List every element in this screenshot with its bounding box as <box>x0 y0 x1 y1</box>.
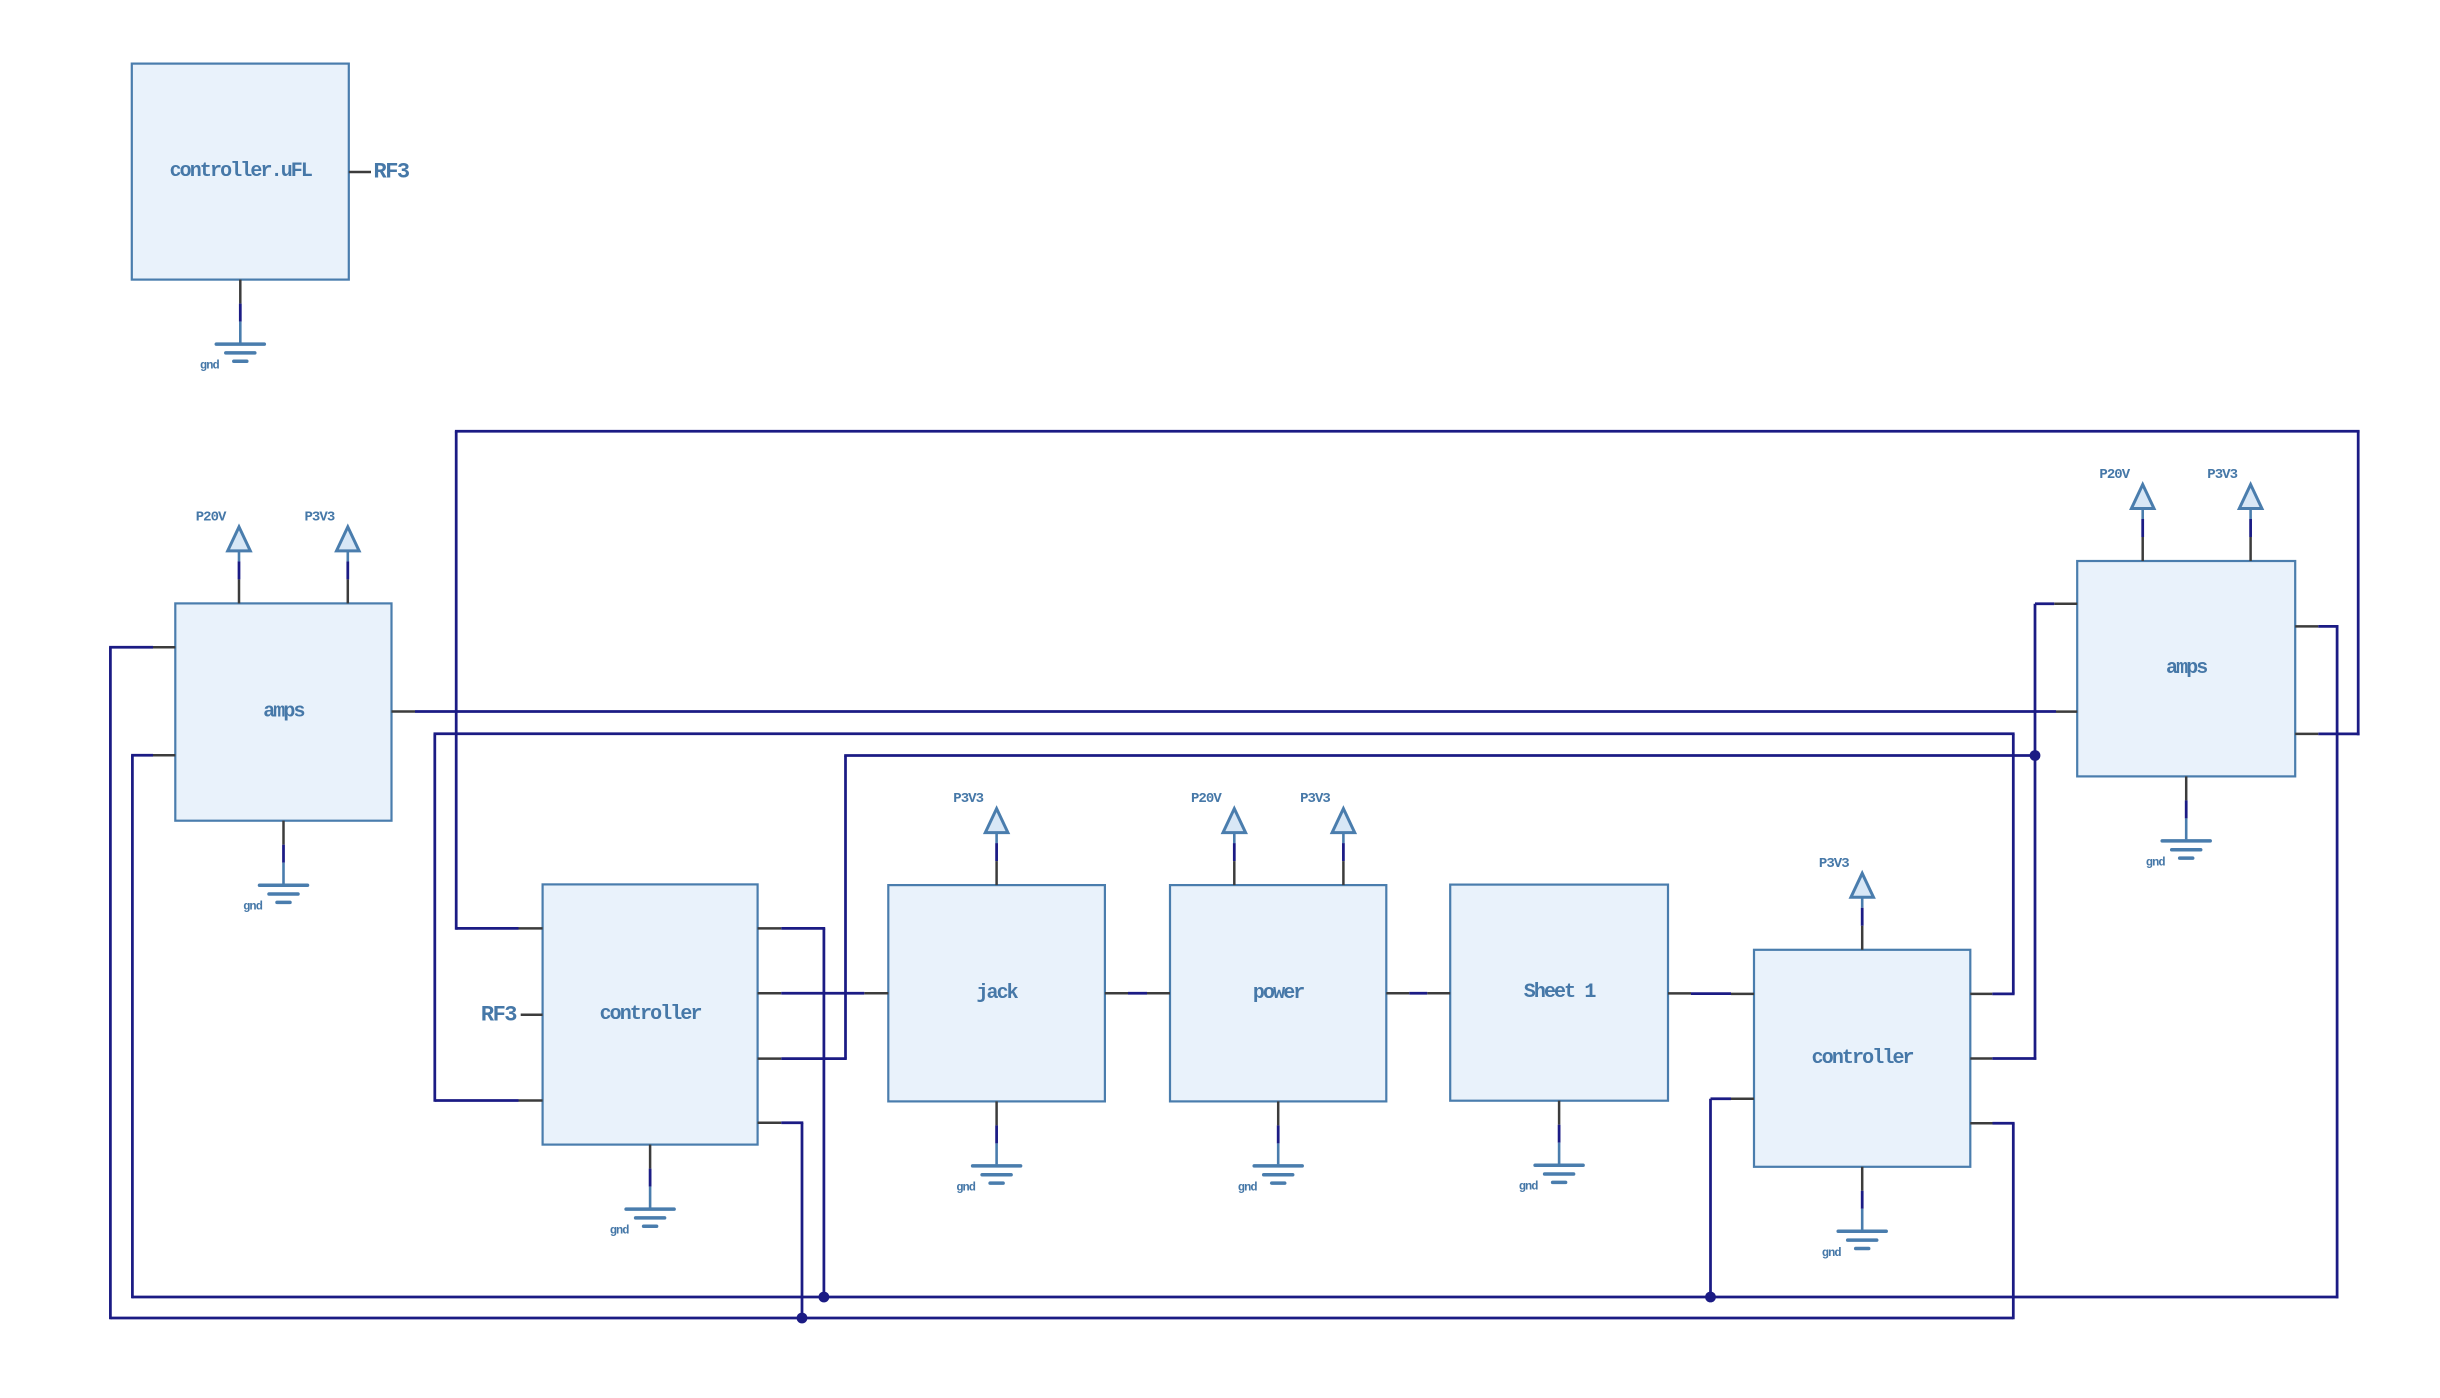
pin RF3 (controller.uFL) <box>349 171 371 174</box>
power symbol P3V3 (power) <box>1300 791 1355 843</box>
svg-text:RF3: RF3 <box>481 1002 517 1027</box>
svg-text:RF3: RF3 <box>374 160 410 185</box>
svg-text:P20V: P20V <box>1191 791 1222 807</box>
pin P3V3 (amps L) <box>347 579 350 603</box>
pin controller R left pin 2 <box>1731 1097 1754 1100</box>
ground (Sheet 1) <box>1519 1143 1583 1194</box>
pin controller C right pin 2 <box>758 992 782 995</box>
hierarchical sheet amps (right) <box>2077 561 2295 776</box>
wire amps L pin1 drop <box>109 647 112 1319</box>
wire L3 horizontal <box>435 1099 519 1102</box>
pin gnd (controller C) <box>649 1145 652 1169</box>
wire gnd stem (controller R) <box>1861 1191 1864 1209</box>
svg-text:gnd: gnd <box>956 1180 976 1194</box>
svg-text:P3V3: P3V3 <box>304 509 334 525</box>
wire top horizontal <box>455 430 2360 433</box>
power symbol P3V3 (jack) <box>953 791 1008 843</box>
wire bottom bus B <box>110 1317 2013 1320</box>
pin controller C right pin 1 <box>758 927 782 930</box>
junction bottom bus B / ctrl C R4 <box>797 1313 808 1324</box>
pin power right pin <box>1386 992 1409 995</box>
pin Sheet 1 left pin <box>1427 992 1450 995</box>
wire ctrl C R4 horizontal <box>781 1121 803 1124</box>
hierarchical sheet controller (center) <box>543 884 758 1144</box>
wire gnd stem (Sheet 1) <box>1558 1125 1561 1143</box>
svg-text:gnd: gnd <box>2146 855 2166 869</box>
wire to amps R pin D <box>2318 733 2359 736</box>
pin gnd (Sheet 1) <box>1558 1101 1561 1125</box>
svg-text:gnd: gnd <box>1519 1180 1539 1194</box>
wire amps L pin1 horizontal <box>109 646 153 649</box>
hierarchical sheet amps (left) <box>175 603 391 820</box>
power symbol P3V3 (controller R) <box>1819 856 1874 908</box>
pin controller C RF3 pin <box>521 1014 543 1017</box>
ground (controller C) <box>610 1187 674 1238</box>
wire L3 riser <box>433 734 436 1102</box>
wire R'1 horizontal <box>1992 993 2014 996</box>
wire Sheet 1 to controller R <box>1691 992 1731 995</box>
pin amps L right pin <box>392 710 416 713</box>
wire ctrl C R2 to jack <box>781 992 864 995</box>
pin P3V3 (controller R) <box>1861 926 1864 950</box>
wire P20V stem (power) <box>1233 843 1236 861</box>
wire gnd stem (power) <box>1277 1125 1280 1143</box>
wire ctrl R R'3 drop <box>2012 1123 2015 1319</box>
wire amps R pin A horizontal <box>2035 602 2054 605</box>
power symbol P20V (power) <box>1191 791 1246 843</box>
wire jack to power <box>1128 992 1147 995</box>
pin P20V (amps L) <box>238 579 241 603</box>
wire drop to R'1 <box>2012 734 2015 994</box>
svg-text:P20V: P20V <box>2099 467 2130 483</box>
wire amps-to-amps horizontal <box>415 710 2056 713</box>
wire gnd stem (amps R) <box>2185 800 2188 818</box>
pin power left pin <box>1147 992 1170 995</box>
pin controller R left pin 1 <box>1731 993 1754 996</box>
wire ctrl C R1 drop <box>823 928 826 1297</box>
hierarchical sheet controller (right) <box>1754 950 1970 1167</box>
pin P3V3 (jack) <box>995 861 998 885</box>
svg-text:controller.uFL: controller.uFL <box>170 160 312 183</box>
wire ctrl R R'3 horizontal <box>1993 1122 2015 1125</box>
ground (jack) <box>956 1143 1020 1194</box>
wire ctrl C R4 drop <box>801 1123 804 1318</box>
wire L1 horizontal <box>456 927 518 930</box>
svg-text:gnd: gnd <box>610 1224 630 1238</box>
svg-text:amps: amps <box>263 701 304 724</box>
hierarchical sheet jack <box>888 885 1105 1101</box>
svg-text:P3V3: P3V3 <box>953 791 983 807</box>
wire amps R pin C horizontal <box>2318 625 2338 628</box>
pin controller C left pin 1 <box>519 927 543 930</box>
svg-text:Sheet 1: Sheet 1 <box>1524 981 1597 1004</box>
wire gnd stem (controller.uFL) <box>239 304 242 322</box>
hierarchical sheet power <box>1170 885 1386 1101</box>
pin P20V (amps R) <box>2141 537 2144 561</box>
junction bottom bus A / ctrl R L'2 <box>1705 1292 1716 1303</box>
wire amps R pin A vertical <box>2034 604 2037 1060</box>
svg-text:P3V3: P3V3 <box>1300 791 1330 807</box>
pin Sheet 1 right pin <box>1668 992 1691 995</box>
wire L1 riser <box>455 431 458 929</box>
power symbol P3V3 (amps L) <box>304 509 359 561</box>
pin P3V3 (power) <box>1342 861 1345 885</box>
pin controller C left pin 3 <box>519 1099 543 1102</box>
ground (power) <box>1238 1143 1302 1194</box>
svg-text:amps: amps <box>2166 657 2207 680</box>
wire mid horizontal B <box>844 754 2035 757</box>
pin gnd (amps L) <box>282 821 285 845</box>
wire P3V3 stem (amps L) <box>346 561 349 579</box>
pin controller R right pin 3 <box>1970 1122 1992 1125</box>
pin controller C right pin 4 <box>758 1122 782 1125</box>
pin gnd (power) <box>1277 1101 1280 1125</box>
pin P20V (power) <box>1233 861 1236 885</box>
hierarchical sheet Sheet 1 <box>1450 885 1668 1101</box>
svg-text:gnd: gnd <box>200 359 220 373</box>
pin amps R left pin B <box>2056 710 2077 713</box>
wire gnd stem (jack) <box>995 1125 998 1143</box>
wire power to Sheet 1 <box>1409 992 1427 995</box>
ground (controller.uFL) <box>200 322 264 373</box>
power symbol P3V3 (amps R) <box>2207 467 2262 519</box>
pin controller R right pin 1 <box>1970 993 1992 996</box>
pin amps L left pin 1 <box>153 646 175 649</box>
pin amps R right pin D <box>2295 733 2318 736</box>
pin gnd (amps R) <box>2185 776 2188 800</box>
wire top right drop <box>2357 431 2360 735</box>
junction mid horizontal B / amps R pin A vertical <box>2030 750 2041 761</box>
wire amps L pin2 horizontal <box>131 754 153 757</box>
pin jack left pin <box>864 992 888 995</box>
wire ctrl R L'2 drop <box>1709 1099 1712 1297</box>
pin P3V3 (amps R) <box>2249 537 2252 561</box>
wire R'2 horizontal <box>1992 1057 2036 1060</box>
pin controller R right pin 2 <box>1970 1057 1992 1060</box>
wire gnd stem (controller C) <box>649 1169 652 1187</box>
ground (controller R) <box>1822 1209 1886 1260</box>
ground (amps R) <box>2146 818 2210 869</box>
svg-text:controller: controller <box>1812 1047 1914 1070</box>
svg-text:gnd: gnd <box>243 900 263 914</box>
svg-text:jack: jack <box>976 982 1018 1005</box>
wire P3V3 stem (jack) <box>995 843 998 861</box>
power symbol P20V (amps L) <box>196 509 251 561</box>
ground (amps L) <box>243 863 307 914</box>
wire R3 horizontal <box>781 1057 847 1060</box>
wire ctrl C R1 horizontal <box>781 927 825 930</box>
junction bottom bus A / ctrl C R1 <box>819 1292 830 1303</box>
wire R3 riser <box>844 756 847 1059</box>
pin gnd (jack) <box>995 1101 998 1125</box>
svg-text:gnd: gnd <box>1822 1246 1842 1260</box>
wire P20V stem (amps R) <box>2141 519 2144 537</box>
svg-text:P3V3: P3V3 <box>1819 856 1849 872</box>
pin amps R left pin A <box>2054 602 2077 605</box>
wire mid horizontal A <box>434 732 2015 735</box>
svg-text:power: power <box>1253 982 1304 1005</box>
wire bottom bus A <box>132 1296 2339 1299</box>
wire P3V3 stem (amps R) <box>2249 519 2252 537</box>
wire P20V stem (amps L) <box>238 561 241 579</box>
wire ctrl R L'2 horizontal <box>1711 1097 1732 1100</box>
svg-text:P20V: P20V <box>196 509 227 525</box>
pin gnd (controller.uFL) <box>239 280 242 304</box>
wire P3V3 stem (power) <box>1342 843 1345 861</box>
pin gnd (controller R) <box>1861 1167 1864 1191</box>
hierarchical sheet controller.uFL <box>132 64 349 280</box>
svg-text:gnd: gnd <box>1238 1180 1258 1194</box>
wire amps R pin C riser <box>2336 626 2339 1298</box>
pin amps L left pin 2 <box>153 754 175 757</box>
pin jack right pin <box>1105 992 1128 995</box>
wire P3V3 stem (controller R) <box>1861 908 1864 926</box>
wire gnd stem (amps L) <box>282 845 285 863</box>
svg-text:controller: controller <box>600 1003 702 1026</box>
pin controller C right pin 3 <box>758 1057 782 1060</box>
power symbol P20V (amps R) <box>2099 467 2154 519</box>
wire amps L pin2 drop <box>131 755 134 1298</box>
pin amps R right pin C <box>2295 625 2318 628</box>
svg-text:P3V3: P3V3 <box>2207 467 2237 483</box>
